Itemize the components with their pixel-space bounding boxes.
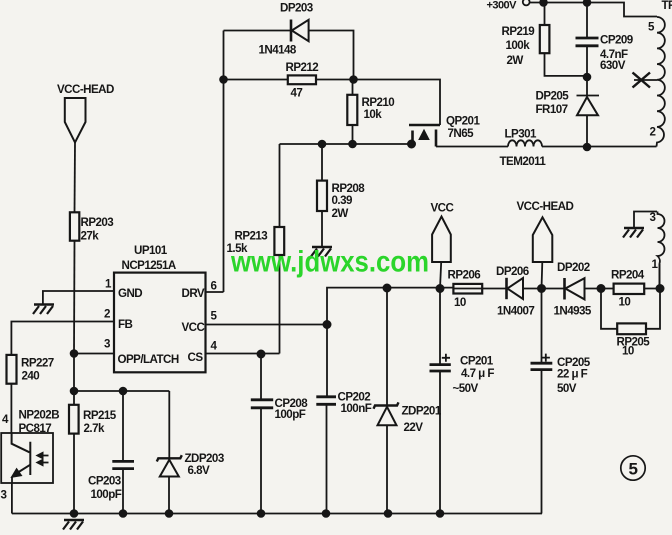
wire gate rail: [280, 143, 412, 145]
ground RP208: [311, 247, 332, 257]
capacitor CP203: [112, 461, 134, 468]
diode DP206: [505, 278, 508, 299]
wire pin1 GND: [43, 291, 114, 304]
node bus ZDP203: [166, 510, 173, 517]
resistor RP210: [347, 95, 357, 125]
page number circled 5: [621, 456, 645, 480]
node RP219/CP209/DP205: [584, 74, 591, 81]
svg-text:FR107: FR107: [536, 103, 568, 116]
svg-text:DP202: DP202: [557, 261, 590, 274]
capacitor CP205: [531, 363, 553, 369]
node bus ZDP201: [385, 510, 392, 517]
diode DP203: [290, 20, 293, 42]
wire +300V top rail: [530, 3, 658, 17]
terminal +300V: [523, 0, 530, 5]
svg-text:4: 4: [211, 340, 218, 353]
svg-text:10: 10: [454, 296, 466, 309]
svg-text:~50V: ~50V: [453, 382, 479, 395]
IC U1 UP101 box: [114, 273, 206, 373]
capacitor CP209: [576, 38, 599, 46]
svg-text:1: 1: [105, 278, 112, 291]
wire VCC pentagon down: [440, 262, 441, 289]
resistor RP227: [7, 355, 17, 384]
svg-text:RP215: RP215: [83, 409, 117, 422]
svg-text:OPP/LATCH: OPP/LATCH: [118, 353, 179, 366]
node VCC riser / CP202: [323, 321, 330, 328]
svg-text:22 μ F: 22 μ F: [557, 368, 588, 381]
opto light arrows: [40, 456, 49, 463]
ground bus: [63, 520, 84, 530]
node bus CP202: [323, 510, 330, 517]
wire CP209 branch: [586, 3, 588, 78]
wire CP208 branch: [260, 354, 262, 514]
resistor RP215: [69, 405, 79, 434]
svg-text:ZDP201: ZDP201: [402, 405, 442, 418]
svg-text:RP206: RP206: [448, 269, 482, 282]
transistor QP201 mosfet: [409, 124, 440, 126]
svg-text:10: 10: [622, 345, 634, 358]
wire VCC pin5 riser: [327, 288, 453, 325]
node bus CP201: [437, 510, 444, 517]
svg-text:3: 3: [650, 211, 657, 224]
svg-text:6: 6: [211, 280, 218, 293]
svg-text:GND: GND: [118, 287, 142, 300]
svg-text:VCC-HEAD: VCC-HEAD: [517, 200, 574, 213]
svg-text:UP101: UP101: [134, 244, 168, 257]
node RP204 right: [656, 285, 663, 292]
wire pin2 FB: [11, 322, 114, 355]
node RP212 right / RP210 top: [350, 76, 357, 83]
transformer TR primary winding: [657, 17, 665, 147]
wire CP201 branch: [439, 289, 441, 514]
opto-coupler NP202B box: [1, 433, 53, 483]
wire LP301 to transformer pin2: [542, 146, 657, 148]
opto NP202B internals: [12, 433, 31, 475]
wire y391 rail: [74, 390, 169, 392]
svg-text:0.39: 0.39: [332, 194, 353, 207]
wire transformer tap: [634, 79, 657, 81]
wire RP227 to opto: [10, 384, 12, 433]
svg-text:CP203: CP203: [88, 475, 122, 488]
wire RP215 branch: [73, 354, 75, 514]
connector VCC: [432, 217, 451, 263]
svg-text:LP301: LP301: [505, 128, 538, 141]
svg-text:VCC: VCC: [182, 321, 206, 334]
svg-text:VCC-HEAD: VCC-HEAD: [57, 83, 114, 96]
wire CP202 branch: [326, 325, 329, 514]
svg-text:27k: 27k: [81, 230, 100, 243]
svg-text:5: 5: [211, 310, 218, 323]
connector VCC-HEAD top-left: [65, 98, 86, 142]
svg-text:+300V: +300V: [487, 0, 518, 12]
svg-text:100k: 100k: [506, 39, 531, 52]
svg-text:4: 4: [2, 413, 9, 426]
ground transformer pin3: [623, 228, 644, 238]
svg-text:PC817: PC817: [19, 422, 52, 435]
svg-text:1N4007: 1N4007: [497, 305, 534, 318]
svg-text:2W: 2W: [507, 54, 524, 67]
node VCC-HEAD / CP205: [538, 285, 545, 292]
svg-text:630V: 630V: [600, 59, 626, 72]
node top CP209 junction: [584, 0, 591, 6]
svg-text:DP206: DP206: [496, 265, 530, 278]
svg-text:RP227: RP227: [21, 357, 54, 370]
node CP203 top: [120, 388, 127, 395]
resistor RP203: [70, 212, 79, 240]
capacitor CP208: [251, 400, 273, 408]
node DP205 anode on drain rail: [584, 144, 591, 151]
capacitor CP201: [430, 365, 451, 371]
zener ZDP201: [386, 288, 388, 514]
svg-text:100pF: 100pF: [91, 488, 122, 501]
wire output row: [453, 288, 660, 290]
node ZDP201 top: [383, 284, 390, 291]
resistor RP213: [274, 227, 284, 255]
node QP201 gate: [408, 140, 415, 147]
resistor RP219: [540, 25, 550, 53]
diode DP205: [577, 77, 600, 147]
node top RP219 junction: [540, 0, 547, 6]
svg-text:2: 2: [650, 126, 656, 139]
node RP212 left: [220, 76, 227, 83]
wire CP205 branch: [541, 289, 543, 514]
svg-text:RP212: RP212: [286, 61, 319, 74]
capacitor CP202: [316, 397, 336, 405]
wire CP203 branch: [122, 391, 124, 514]
svg-text:QP201: QP201: [446, 115, 480, 128]
svg-text:2: 2: [104, 308, 110, 321]
svg-text:3: 3: [104, 338, 111, 351]
wire RP210 stubs: [352, 80, 354, 145]
inductor LP301: [508, 140, 542, 146]
svg-text:22V: 22V: [404, 421, 424, 434]
svg-text:100nF: 100nF: [341, 402, 372, 415]
plus sign CP205: [542, 354, 550, 362]
svg-text:TEM2011: TEM2011: [500, 155, 547, 168]
resistor RP208: [317, 181, 327, 211]
svg-text:CP209: CP209: [600, 34, 634, 47]
zener ZDP203: [168, 391, 170, 514]
wire RP213 branch: [279, 144, 281, 354]
tap X mark: [633, 73, 651, 88]
wire DRV vertical: [206, 31, 224, 293]
svg-text:1N4935: 1N4935: [554, 305, 592, 318]
node DP202 / RP205: [597, 285, 604, 292]
svg-text:10k: 10k: [364, 108, 383, 121]
svg-text:NCP1251A: NCP1251A: [122, 259, 177, 272]
svg-text:VCC: VCC: [431, 202, 455, 215]
node pin3 / RP203 / RP215: [71, 350, 78, 357]
wire RP219 branch: [545, 3, 588, 76]
svg-text:RP219: RP219: [502, 25, 536, 38]
svg-text:DP205: DP205: [536, 90, 570, 103]
svg-text:DP203: DP203: [280, 2, 314, 15]
svg-text:CP201: CP201: [460, 355, 494, 368]
wire RP205 loop: [601, 289, 660, 329]
svg-text:RP213: RP213: [235, 230, 269, 243]
svg-text:2W: 2W: [332, 207, 349, 220]
wire RP208 branch: [321, 144, 323, 246]
svg-text:50V: 50V: [557, 382, 577, 395]
resistor RP206: [453, 284, 482, 294]
node bus CP203: [120, 510, 127, 517]
svg-text:FB: FB: [118, 318, 133, 331]
svg-text:7N65: 7N65: [448, 127, 475, 140]
svg-text:6.8V: 6.8V: [188, 464, 210, 477]
svg-text:RP204: RP204: [611, 269, 645, 282]
node CS / CP208: [257, 350, 264, 357]
svg-text:www.jdwxs.com: www.jdwxs.com: [230, 246, 429, 279]
connector VCC-HEAD: [533, 217, 553, 262]
svg-text:CS: CS: [188, 351, 204, 364]
wire pin3 OPP/LATCH: [74, 353, 114, 355]
svg-text:100pF: 100pF: [275, 408, 306, 421]
svg-text:NP202B: NP202B: [19, 409, 60, 422]
wire DP203 top loop: [224, 31, 354, 80]
svg-text:10: 10: [619, 296, 631, 309]
svg-text:5: 5: [648, 21, 655, 34]
svg-text:47: 47: [291, 87, 303, 100]
wire pin1 to row: [659, 264, 661, 289]
node gate/RP208: [319, 141, 326, 148]
node RP215 top / y391 rail: [71, 388, 78, 395]
resistor RP205: [617, 323, 646, 334]
node gate/RP210: [349, 141, 356, 148]
resistor RP204: [614, 284, 645, 294]
svg-text:5: 5: [629, 460, 638, 479]
svg-text:DRV: DRV: [182, 287, 205, 300]
wire opto pin3 to bus: [11, 483, 13, 514]
svg-text:RP203: RP203: [81, 216, 115, 229]
wire RP212 rail: [224, 80, 441, 126]
wire VCC-HEAD pentagon down: [541, 262, 544, 289]
svg-text:2.7k: 2.7k: [84, 422, 105, 435]
svg-text:TR: TR: [662, 0, 672, 12]
node bus CP208: [258, 510, 265, 517]
wire pin4 CS: [206, 353, 280, 355]
resistor RP212: [288, 75, 316, 84]
svg-text:1: 1: [652, 258, 659, 271]
svg-text:4.7 μ F: 4.7 μ F: [461, 367, 494, 380]
svg-text:1N4148: 1N4148: [259, 44, 297, 57]
svg-text:240: 240: [22, 370, 40, 383]
wire transformer pin3 to ground: [634, 212, 657, 228]
bus bottom ground rail: [12, 513, 542, 515]
wire RP203 down to pin3 node: [73, 241, 76, 354]
svg-text:3: 3: [1, 489, 8, 502]
diode DP202: [563, 278, 566, 300]
wire pin5 VCC: [206, 324, 328, 326]
wire VCC-HEAD to RP203: [74, 142, 77, 212]
ground pin1: [33, 305, 54, 315]
node VCC / CP201: [436, 285, 443, 292]
plus sign CP201: [442, 354, 450, 362]
transformer TR secondary winding: [658, 212, 665, 290]
node bus RP215: [71, 510, 78, 517]
wire QP201 source to LP301: [436, 146, 508, 148]
